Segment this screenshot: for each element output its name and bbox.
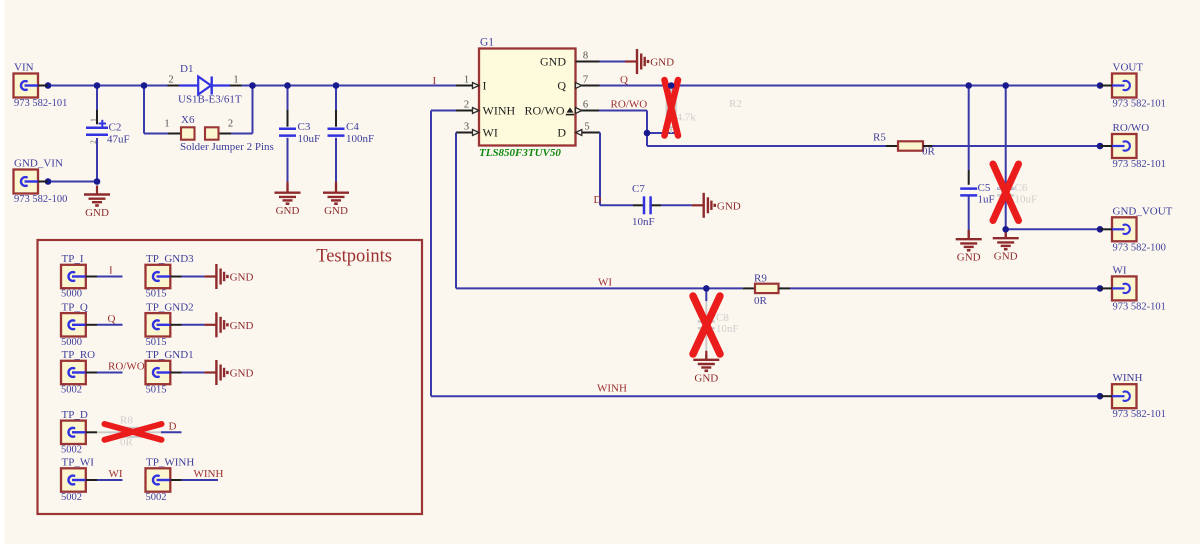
svg-text:WI: WI bbox=[1113, 264, 1127, 276]
svg-text:GND: GND bbox=[230, 320, 254, 332]
svg-text:TP_GND1: TP_GND1 bbox=[146, 349, 194, 361]
svg-text:TP_WINH: TP_WINH bbox=[146, 457, 194, 469]
svg-text:10uF: 10uF bbox=[298, 133, 321, 145]
svg-text:10uF: 10uF bbox=[1015, 194, 1038, 206]
svg-text:GND: GND bbox=[230, 368, 254, 380]
svg-text:US1B-E3/61T: US1B-E3/61T bbox=[178, 94, 242, 106]
svg-text:C3: C3 bbox=[298, 121, 311, 133]
svg-text:1: 1 bbox=[90, 118, 98, 122]
svg-text:973 582-101: 973 582-101 bbox=[14, 98, 67, 109]
svg-text:47uF: 47uF bbox=[107, 134, 130, 146]
svg-text:2: 2 bbox=[168, 75, 173, 86]
svg-text:TP_RO: TP_RO bbox=[62, 349, 96, 361]
svg-text:RO/WO: RO/WO bbox=[1113, 122, 1150, 134]
svg-text:R2: R2 bbox=[729, 98, 742, 110]
svg-text:5002: 5002 bbox=[146, 492, 167, 503]
svg-text:5015: 5015 bbox=[146, 289, 167, 300]
svg-text:5002: 5002 bbox=[61, 492, 82, 503]
svg-text:I: I bbox=[433, 75, 437, 87]
svg-text:5: 5 bbox=[584, 122, 589, 133]
svg-text:Solder Jumper 2 Pins: Solder Jumper 2 Pins bbox=[180, 141, 274, 153]
svg-text:D1: D1 bbox=[180, 63, 193, 75]
svg-text:10nF: 10nF bbox=[716, 323, 739, 335]
svg-text:1: 1 bbox=[233, 75, 238, 86]
svg-text:D: D bbox=[557, 126, 566, 140]
svg-text:5000: 5000 bbox=[61, 337, 82, 348]
svg-text:VIN: VIN bbox=[14, 62, 34, 74]
svg-text:X6: X6 bbox=[181, 114, 195, 126]
svg-text:8: 8 bbox=[583, 51, 588, 62]
svg-text:R9: R9 bbox=[754, 273, 767, 285]
svg-text:RO/WO: RO/WO bbox=[108, 361, 145, 373]
svg-text:GND: GND bbox=[957, 252, 981, 264]
svg-text:C4: C4 bbox=[346, 121, 359, 133]
svg-text:GND: GND bbox=[230, 272, 254, 284]
svg-text:GND: GND bbox=[276, 205, 300, 217]
svg-text:WINH: WINH bbox=[1113, 372, 1143, 384]
svg-text:973 582-101: 973 582-101 bbox=[1113, 409, 1166, 420]
svg-text:GND: GND bbox=[540, 55, 566, 69]
svg-text:5002: 5002 bbox=[61, 444, 82, 455]
svg-text:4.7k: 4.7k bbox=[677, 112, 697, 124]
svg-text:WINH: WINH bbox=[597, 383, 627, 395]
svg-text:1: 1 bbox=[164, 119, 169, 130]
svg-text:GND: GND bbox=[694, 372, 718, 384]
svg-text:7: 7 bbox=[583, 75, 588, 86]
svg-text:1: 1 bbox=[464, 75, 469, 86]
svg-text:TP_WI: TP_WI bbox=[62, 457, 95, 469]
svg-text:GND: GND bbox=[650, 57, 674, 69]
svg-text:C7: C7 bbox=[632, 183, 645, 195]
svg-text:D: D bbox=[169, 420, 177, 432]
svg-text:GND: GND bbox=[85, 207, 109, 219]
svg-text:973 582-101: 973 582-101 bbox=[1113, 159, 1166, 170]
svg-text:TP_GND3: TP_GND3 bbox=[146, 253, 194, 265]
svg-text:GND: GND bbox=[324, 205, 348, 217]
svg-text:TP_GND2: TP_GND2 bbox=[146, 301, 194, 313]
svg-text:I: I bbox=[109, 265, 113, 277]
svg-text:WI: WI bbox=[483, 126, 498, 140]
svg-text:1uF: 1uF bbox=[978, 194, 995, 206]
svg-text:Q: Q bbox=[620, 74, 628, 86]
svg-text:6: 6 bbox=[583, 100, 588, 111]
svg-text:2: 2 bbox=[464, 100, 469, 111]
svg-text:R5: R5 bbox=[873, 132, 886, 144]
svg-text:WINH: WINH bbox=[483, 104, 516, 118]
svg-text:GND_VIN: GND_VIN bbox=[14, 158, 63, 170]
svg-text:G1: G1 bbox=[480, 37, 494, 49]
svg-text:0R: 0R bbox=[120, 437, 134, 449]
svg-text:WI: WI bbox=[109, 468, 123, 480]
svg-text:WI: WI bbox=[598, 277, 612, 289]
svg-text:I: I bbox=[483, 79, 487, 93]
svg-text:C6: C6 bbox=[1015, 182, 1028, 194]
svg-text:D: D bbox=[594, 194, 602, 206]
svg-text:973 582-101: 973 582-101 bbox=[1113, 99, 1166, 110]
svg-text:5015: 5015 bbox=[146, 337, 167, 348]
svg-text:5002: 5002 bbox=[61, 385, 82, 396]
svg-text:GND_VOUT: GND_VOUT bbox=[1113, 205, 1173, 217]
svg-text:Q: Q bbox=[108, 313, 116, 325]
svg-text:0R: 0R bbox=[754, 295, 768, 307]
svg-text:VOUT: VOUT bbox=[1113, 62, 1144, 74]
svg-text:TP_D: TP_D bbox=[62, 409, 88, 421]
svg-text:Q: Q bbox=[557, 79, 566, 93]
svg-text:WINH: WINH bbox=[194, 468, 224, 480]
svg-text:0R: 0R bbox=[922, 146, 936, 158]
svg-text:973 582-100: 973 582-100 bbox=[1113, 242, 1166, 253]
svg-text:10nF: 10nF bbox=[632, 216, 655, 228]
svg-text:TP_Q: TP_Q bbox=[62, 301, 88, 313]
svg-text:973 582-101: 973 582-101 bbox=[1113, 301, 1166, 312]
svg-text:TP_I: TP_I bbox=[62, 253, 84, 265]
svg-text:RO/WO: RO/WO bbox=[525, 104, 565, 118]
svg-text:R8: R8 bbox=[120, 415, 133, 427]
svg-text:2: 2 bbox=[228, 119, 233, 130]
svg-text:973 582-100: 973 582-100 bbox=[14, 194, 67, 205]
svg-text:GND: GND bbox=[994, 251, 1018, 263]
svg-text:100nF: 100nF bbox=[346, 133, 374, 145]
svg-text:2: 2 bbox=[90, 140, 98, 144]
svg-text:TLS850F3TUV50: TLS850F3TUV50 bbox=[479, 147, 561, 159]
svg-text:RO/WO: RO/WO bbox=[611, 99, 648, 111]
svg-text:C5: C5 bbox=[978, 182, 991, 194]
svg-text:GND: GND bbox=[717, 200, 741, 212]
svg-text:C2: C2 bbox=[109, 122, 122, 134]
svg-text:5000: 5000 bbox=[61, 289, 82, 300]
svg-text:5015: 5015 bbox=[146, 385, 167, 396]
svg-text:3: 3 bbox=[464, 122, 469, 133]
svg-text:Testpoints: Testpoints bbox=[316, 247, 392, 267]
